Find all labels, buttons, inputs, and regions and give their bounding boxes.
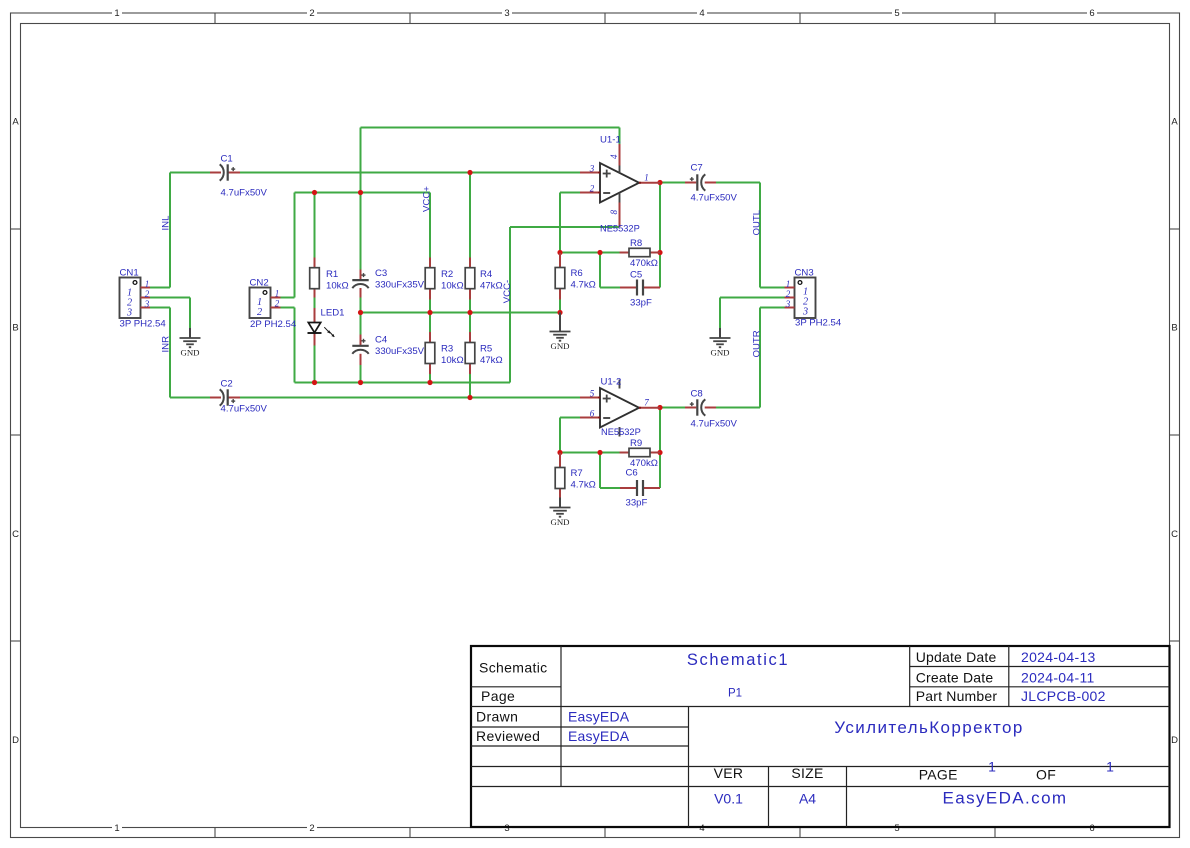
wire C7 to OUTL corner [716,182,760,184]
svg-text:D: D [12,735,19,746]
connector CN1 [120,278,151,319]
svg-text:PAGE: PAGE [919,767,958,783]
resistor R4 [465,258,475,300]
label C8 value [691,419,738,430]
wire CN2 pin1 riser [294,193,296,298]
label C3 value [375,280,425,291]
svg-text:C: C [1171,529,1178,540]
CN1 pin name 1 [127,288,132,299]
wire GND mid rail [361,312,561,314]
junction [312,190,317,195]
svg-text:R3: R3 [441,344,453,355]
label R5 [480,344,492,355]
op-amp U1-1 [580,144,660,227]
label C6 [626,468,638,479]
svg-text:NE5532P: NE5532P [601,427,641,437]
capacitor C1 [210,164,240,180]
wire U1-1 output riser to R8 [659,183,661,253]
label CN2 value [250,319,297,330]
svg-text:R5: R5 [480,344,492,355]
wire R3 top from GND rail [429,313,431,333]
label R6 [571,268,583,279]
wire U1-2 output riser to R9 [659,408,661,453]
junction [557,250,562,255]
CN1 pin number 1 outside [145,279,150,289]
svg-text:5: 5 [590,389,595,399]
capacitor C4 [352,335,368,366]
wire VCC+ riser [360,128,362,193]
CN1 pin number 2 outside [145,289,150,299]
junction [597,250,602,255]
CN2 pin name 2 [257,307,262,318]
svg-text:47kΩ: 47kΩ [480,280,503,291]
svg-text:1: 1 [114,823,119,834]
wire R5 top from GND rail [469,313,471,333]
wire R1 to LED1 [314,298,316,309]
svg-text:2: 2 [275,299,280,309]
label CN3 value [795,318,842,329]
svg-text:GND: GND [180,348,199,358]
svg-text:SIZE: SIZE [791,765,823,781]
svg-text:CN3: CN3 [795,268,814,279]
svg-text:33pF: 33pF [630,298,652,309]
svg-text:Part Number: Part Number [916,688,998,704]
net label OUTR [751,330,762,357]
connector CN3 [785,278,816,319]
svg-text:EasyEDA.com: EasyEDA.com [943,789,1068,808]
wire R3 bottom to VCC- rail [429,374,431,383]
wire LED1 to VCC- rail [314,346,316,383]
label R9 value [630,458,658,469]
svg-text:VER: VER [714,765,744,781]
svg-text:3P PH2.54: 3P PH2.54 [120,319,167,330]
ground GND at R6 [550,313,571,352]
junction [358,190,363,195]
svg-text:B: B [12,323,18,334]
svg-text:P1: P1 [728,688,742,700]
label U1-1 [600,135,621,146]
wire R4 bottom to GND rail [469,300,471,313]
svg-text:Update Date: Update Date [916,649,997,665]
svg-text:V0.1: V0.1 [714,791,743,807]
svg-text:LED1: LED1 [321,308,345,319]
label R9 [630,438,642,449]
svg-text:10kΩ: 10kΩ [441,280,464,291]
svg-text:C3: C3 [375,268,387,279]
label LED1 [321,308,345,319]
wire C5 left drop [599,253,601,288]
svg-text:2024-04-13: 2024-04-13 [1021,649,1096,665]
label R3 [441,344,453,355]
wire net INR vertical [169,308,171,398]
svg-text:GND: GND [550,517,569,527]
label CN1 value [120,319,167,330]
svg-text:2: 2 [309,8,314,19]
label R4 value [480,280,503,291]
capacitor C2 [210,389,240,405]
svg-text:R2: R2 [441,269,453,280]
svg-text:330uFx35V: 330uFx35V [375,280,425,291]
label R7 [571,468,583,479]
svg-text:6: 6 [1089,8,1094,19]
ground GND at CN1 pin2 [180,328,201,358]
svg-text:A: A [12,116,19,127]
CN3 pin name 3 [802,307,808,318]
resistor R3 [425,332,435,374]
svg-text:4.7uFx50V: 4.7uFx50V [221,404,268,415]
junction [467,310,472,315]
svg-text:C4: C4 [375,335,388,346]
op-amp U1-2 [580,380,660,437]
label C5 [630,270,642,281]
wire VCC+ top rail [361,127,620,129]
resistor R7 [555,453,565,498]
wire U1-1 pin4 drop [619,128,621,145]
junction [427,380,432,385]
svg-text:NE5532P: NE5532P [600,224,640,234]
svg-text:C2: C2 [221,379,233,390]
U1-1 pin number 2 [590,184,595,194]
wire C5 right riser [659,253,661,288]
svg-text:U1-1: U1-1 [600,135,621,146]
svg-text:Drawn: Drawn [476,709,518,725]
svg-text:C5: C5 [630,270,642,281]
label C5 value [630,298,652,309]
label U1-1 part NE5532P [600,224,640,234]
capacitor C7 [685,174,716,190]
wire net INL vertical [169,173,171,288]
wire U1-2 pin6 lead [560,417,580,419]
svg-text:6: 6 [590,409,595,419]
wire R6 bottom to GND [559,300,561,313]
U1-1 pin number 1 [644,173,649,183]
svg-text:U1-2: U1-2 [601,377,622,388]
CN1 pin number 3 outside [144,299,150,309]
svg-text:6: 6 [1089,823,1094,834]
wire R4 top drop from pin3 rail [469,173,471,258]
wire C6 left drop [599,453,601,489]
svg-text:4.7kΩ: 4.7kΩ [571,479,596,490]
net label INR [161,336,172,353]
svg-text:33pF: 33pF [626,498,648,509]
resistor R9 [620,448,661,456]
wire C4 top from GND rail [360,313,362,335]
label R7 value [571,479,596,490]
svg-text:330uFx35V: 330uFx35V [375,346,425,357]
wire CN1 pin2 to ground [150,297,190,299]
wire C6 left lead [600,487,620,489]
U1-2 pin number 5 [590,389,595,399]
svg-text:3: 3 [144,299,150,309]
svg-text:1: 1 [114,8,119,19]
wire VCC- to U1-1 pin8 [510,226,620,228]
wire net INL from CN1 pin1 [150,287,170,289]
label C7 value [691,193,738,204]
wire C8 to OUTR corner [716,407,760,409]
svg-text:2: 2 [590,184,595,194]
net label INL [161,215,172,231]
junction [657,250,662,255]
wire U1-1 feedback rail [560,252,620,254]
label R6 value [571,279,596,290]
wire U1-1 inverting drop [559,193,561,253]
junction [467,395,472,400]
svg-text:R7: R7 [571,468,583,479]
wire CN3 ground drop [719,298,721,329]
svg-text:3: 3 [504,823,509,834]
junction [597,450,602,455]
ground GND at R7 [550,498,571,528]
junction [657,405,662,410]
svg-text:R8: R8 [630,238,642,249]
svg-text:R4: R4 [480,269,493,280]
label R1 value [326,280,349,291]
label CN2 [250,278,269,289]
junction [467,170,472,175]
label R5 value [480,355,503,366]
CN2 pin number 1 outside [275,289,280,299]
svg-text:4.7uFx50V: 4.7uFx50V [221,188,268,199]
wire VCC- riser [509,227,511,383]
resistor R1 [310,258,320,298]
svg-text:D: D [1171,735,1178,746]
wire C3 top drop [360,193,362,270]
svg-text:1: 1 [275,289,280,299]
wire U1-1 pin2 lead [560,192,580,194]
svg-text:VCC-: VCC- [502,280,513,303]
wire net OUTL vertical [759,183,761,288]
label CN1 [120,268,139,279]
wire VCC- bottom rail [295,382,511,384]
svg-text:4.7uFx50V: 4.7uFx50V [691,193,738,204]
label C4 value [375,346,425,357]
svg-text:1: 1 [644,173,649,183]
svg-text:3P PH2.54: 3P PH2.54 [795,318,842,329]
svg-text:4: 4 [699,8,704,19]
svg-text:GND: GND [550,341,569,351]
svg-text:5: 5 [894,823,899,834]
svg-text:3: 3 [126,308,132,319]
label R4 [480,269,493,280]
CN3 pin name 2 [803,297,808,308]
wire U1-2 inverting drop [559,418,561,453]
svg-text:EasyEDA: EasyEDA [568,728,630,744]
resistor R6 [555,253,565,300]
CN3 pin number 1 outside [786,279,791,289]
label C3 [375,268,387,279]
svg-text:R9: R9 [630,438,642,449]
junction [657,180,662,185]
wire R2 bottom to GND rail [429,300,431,313]
CN3 pin name 1 [803,287,808,298]
wire CN1 ground drop [189,298,191,329]
wire U1-1 output to C7 [660,182,685,184]
U1-1 pin number 4 [609,154,619,159]
U1-2 pin number 6 [590,409,595,419]
svg-text:C8: C8 [691,389,703,400]
wire R5 bottom to pin5 rail [469,374,471,398]
svg-text:3: 3 [504,8,509,19]
junction [557,310,562,315]
svg-text:2: 2 [786,289,791,299]
connector CN2 [250,288,281,319]
svg-text:2P PH2.54: 2P PH2.54 [250,319,297,330]
net label OUTL [751,209,762,235]
svg-text:10kΩ: 10kΩ [441,355,464,366]
svg-text:C7: C7 [691,163,703,174]
net label VCC+ [422,186,433,212]
wire net INR from CN1 pin3 [150,307,170,309]
svg-text:B: B [1171,323,1177,334]
CN3 pin number 2 outside [786,289,791,299]
svg-text:1: 1 [145,279,150,289]
label C2 [221,379,233,390]
svg-text:JLCPCB-002: JLCPCB-002 [1021,688,1106,704]
svg-text:3: 3 [802,307,808,318]
CN2 pin name 1 [257,297,262,308]
label U1-2 [601,377,622,388]
svg-text:2: 2 [145,289,150,299]
svg-text:Schematic1: Schematic1 [687,651,789,669]
svg-text:7: 7 [644,398,649,408]
wire R2 top drop VCC+ [429,193,431,258]
wire U1-2 output to C8 [660,407,685,409]
svg-text:VCC+: VCC+ [422,186,433,212]
svg-text:1: 1 [1106,759,1114,775]
wire U1-2 feedback rail [560,452,620,454]
label U1-2 part NE5532P [601,427,641,437]
label CN3 [795,268,814,279]
svg-text:10kΩ: 10kΩ [326,280,349,291]
svg-text:1: 1 [988,759,996,775]
junction [358,380,363,385]
svg-text:Reviewed: Reviewed [476,728,540,744]
svg-text:Page: Page [481,688,515,704]
svg-text:4.7kΩ: 4.7kΩ [571,279,596,290]
svg-text:470kΩ: 470kΩ [630,258,658,269]
wire C5 left lead [600,287,620,289]
svg-text:8: 8 [609,210,619,215]
capacitor C3 [352,270,368,298]
U1-2 pin number 7 [644,398,649,408]
wire CN2 pin1 stub [281,297,295,299]
svg-text:C: C [12,529,19,540]
label R2 [441,269,453,280]
wire C3 bottom to GND rail [360,298,362,313]
svg-text:OUTL: OUTL [751,209,762,235]
LED LED1 [308,308,335,346]
net label VCC- [502,280,513,303]
svg-text:C6: C6 [626,468,638,479]
label C8 [691,389,703,400]
wire net INL to C1 [170,172,210,174]
svg-text:4.7uFx50V: 4.7uFx50V [691,419,738,430]
svg-text:47kΩ: 47kΩ [480,355,503,366]
label R8 value [630,258,658,269]
resistor R2 [425,258,435,300]
label R3 value [441,355,464,366]
CN3 pin number 3 outside [785,299,791,309]
wire C4 bottom to VCC- rail [360,365,362,383]
svg-text:INL: INL [161,215,172,231]
svg-text:INR: INR [161,336,172,353]
capacitor C6 [620,480,660,496]
wire CN2 pin2 stub [281,307,295,309]
svg-text:OF: OF [1036,767,1056,783]
wire OUTR to CN3 pin3 [760,307,785,309]
CN1 pin name 2 [127,298,132,309]
svg-text:4: 4 [699,823,704,834]
svg-text:2: 2 [309,823,314,834]
CN1 pin name 3 [126,308,132,319]
svg-text:Schematic: Schematic [479,660,548,676]
svg-text:УсилительКорректор: УсилительКорректор [834,718,1023,737]
junction [657,450,662,455]
label R2 value [441,280,464,291]
junction [427,310,432,315]
wire R1 top drop [314,193,316,258]
svg-text:A4: A4 [799,791,816,807]
junction [557,450,562,455]
wire CN3 pin2 to ground [720,297,785,299]
svg-text:R1: R1 [326,269,338,280]
svg-text:CN2: CN2 [250,278,269,289]
wire VCC+ distribution rail [295,192,431,194]
junction [312,380,317,385]
ground GND at CN3 pin2 [710,328,731,358]
svg-text:4: 4 [609,154,619,159]
resistor R5 [465,332,475,374]
svg-text:2024-04-11: 2024-04-11 [1021,670,1095,686]
wire C1 to U1-1 pin3 rail [240,172,580,174]
wire net INR to C2 [170,397,210,399]
wire net OUTR vertical [759,308,761,408]
label C1 value [221,188,268,199]
label C1 [221,154,233,165]
label C7 [691,163,703,174]
svg-text:Create Date: Create Date [916,670,994,686]
U1-1 pin number 8 [609,210,619,215]
svg-text:CN1: CN1 [120,268,139,279]
svg-text:OUTR: OUTR [751,330,762,357]
svg-text:3: 3 [589,164,595,174]
wire C2 to U1-2 pin5 rail [240,397,580,399]
svg-text:1: 1 [786,279,791,289]
capacitor C5 [620,280,660,296]
wire C6 right riser [659,453,661,489]
label R1 [326,269,338,280]
junction [358,310,363,315]
capacitor C8 [685,399,716,415]
svg-text:A: A [1171,116,1178,127]
label R8 [630,238,642,249]
svg-text:EasyEDA: EasyEDA [568,709,630,725]
svg-text:2: 2 [257,307,262,318]
U1-1 pin number 3 [589,164,595,174]
svg-text:GND: GND [710,348,729,358]
label C4 [375,335,388,346]
svg-text:5: 5 [894,8,899,19]
svg-text:R6: R6 [571,268,583,279]
label C6 value [626,498,648,509]
wire CN2 pin2 drop VCC- [294,308,296,383]
svg-text:C1: C1 [221,154,233,165]
resistor R8 [620,248,661,256]
label C2 value [221,404,268,415]
wire OUTL to CN3 pin1 [760,287,785,289]
CN2 pin number 2 outside [275,299,280,309]
svg-text:3: 3 [785,299,791,309]
